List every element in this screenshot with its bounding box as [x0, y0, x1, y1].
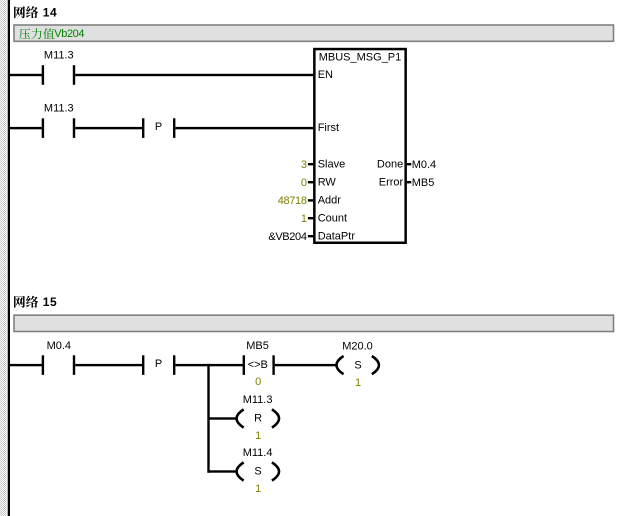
- svg-text:S: S: [254, 466, 261, 478]
- wire branch to coil R (rung 4): [209, 417, 237, 419]
- network 14 comment bar: [14, 25, 614, 41]
- svg-text:1: 1: [301, 213, 307, 225]
- pin tick Slave: [308, 163, 313, 165]
- svg-text:P: P: [155, 358, 162, 370]
- coil reset M11.3 with count 1: [237, 394, 280, 442]
- svg-text:R: R: [254, 413, 262, 425]
- network 15 title: [14, 295, 57, 309]
- pin tick Done: [407, 163, 411, 165]
- wire MB5 to coil M20.0 (rung 3): [275, 364, 337, 366]
- wire M11.3 to P contact (rung 2): [75, 127, 142, 129]
- coil set M20.0 with count 1: [336, 341, 379, 389]
- wire contact M11.3 to EN (rung 1): [75, 74, 313, 76]
- left power rail: [8, 0, 10, 516]
- svg-text:EN: EN: [318, 69, 333, 81]
- pin tick DataPtr: [308, 235, 313, 237]
- svg-text:M11.3: M11.3: [44, 50, 74, 62]
- coil set M11.4 with count 1: [237, 447, 280, 495]
- compare contact MB5 not-equal B (rung 3): [243, 340, 275, 388]
- pin tick Addr: [308, 199, 313, 201]
- svg-text:MB5: MB5: [412, 177, 435, 189]
- svg-text:M0.4: M0.4: [47, 340, 71, 352]
- svg-text:3: 3: [301, 159, 307, 171]
- wire rail to contact M11.3 (rung 2): [9, 127, 42, 129]
- contact P positive transition (rung 2): [142, 118, 175, 138]
- pin tick Error: [407, 181, 411, 183]
- svg-text:MB5: MB5: [246, 340, 269, 352]
- svg-text:S: S: [354, 359, 361, 371]
- wire rail to contact M0.4 (rung 3): [9, 364, 42, 366]
- wire P to First (rung 2): [175, 127, 313, 129]
- svg-text:M11.3: M11.3: [44, 103, 74, 115]
- pin tick Count: [308, 217, 313, 219]
- left margin hatch: [0, 0, 7, 516]
- svg-text:Error: Error: [379, 176, 404, 188]
- wire P to compare contact MB5 (rung 3): [175, 364, 242, 366]
- svg-text:M11.4: M11.4: [243, 447, 273, 459]
- contact M11.3 (rung 2): [42, 103, 76, 138]
- svg-text:MBUS_MSG_P1: MBUS_MSG_P1: [319, 51, 402, 63]
- svg-text:Count: Count: [318, 212, 347, 224]
- wire rail to contact M11.3 (rung 1): [9, 74, 42, 76]
- svg-text:Vb204: Vb204: [54, 28, 84, 40]
- network 15 comment bar: [14, 315, 614, 331]
- svg-text:1: 1: [355, 377, 361, 389]
- contact M0.4 (rung 3): [42, 340, 76, 375]
- svg-text:M11.3: M11.3: [243, 394, 273, 406]
- pin tick RW: [308, 181, 313, 183]
- network 14 title: [14, 5, 57, 19]
- function box U1 MBUS_MSG_P1: [314, 49, 405, 243]
- svg-text:DataPtr: DataPtr: [318, 230, 356, 242]
- wire M0.4 to P contact (rung 3): [75, 364, 142, 366]
- contact M11.3 (rung 1): [42, 50, 76, 85]
- svg-text:M0.4: M0.4: [412, 159, 436, 171]
- svg-text:First: First: [318, 122, 339, 134]
- svg-text:0: 0: [301, 177, 307, 189]
- contact P positive transition (rung 3): [142, 355, 175, 375]
- branch vertical wire at node: [207, 364, 209, 473]
- svg-text:14: 14: [43, 5, 58, 19]
- svg-text:Addr: Addr: [318, 195, 342, 207]
- svg-text:Slave: Slave: [318, 158, 346, 170]
- svg-text:48718: 48718: [278, 195, 307, 207]
- svg-text:&VB204: &VB204: [268, 231, 306, 243]
- svg-text:P: P: [155, 121, 162, 133]
- svg-text:1: 1: [255, 483, 261, 495]
- svg-text:1: 1: [255, 430, 261, 442]
- svg-text:<>B: <>B: [248, 359, 268, 371]
- svg-text:0: 0: [255, 376, 261, 388]
- wire branch to coil S (rung 5): [209, 470, 237, 472]
- svg-text:M20.0: M20.0: [342, 341, 373, 353]
- svg-text:Done: Done: [377, 158, 403, 170]
- svg-text:15: 15: [43, 295, 58, 309]
- svg-text:RW: RW: [318, 176, 337, 188]
